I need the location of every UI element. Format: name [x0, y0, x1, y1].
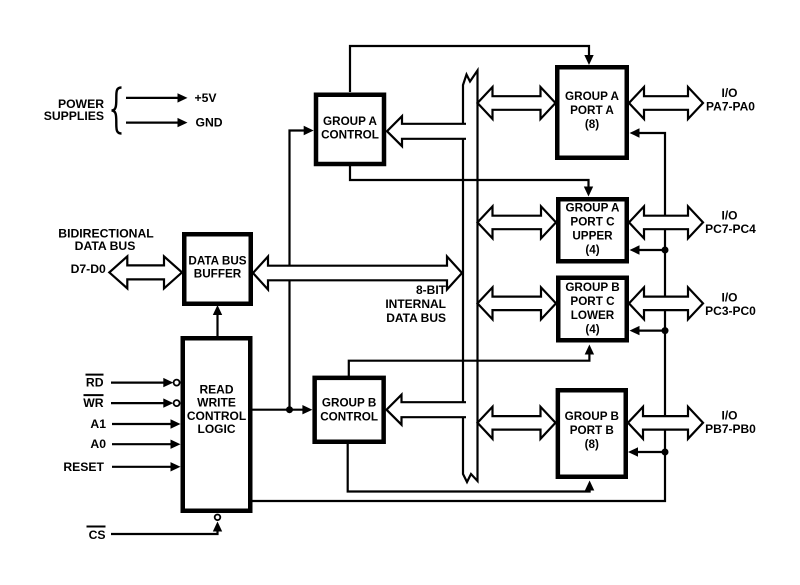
svg-text:(4): (4) — [585, 323, 599, 336]
svg-text:I/O: I/O — [721, 86, 737, 100]
svg-text:RESET: RESET — [63, 460, 104, 474]
I/O double arrow PC3-PC0 — [629, 287, 703, 319]
svg-text:A0: A0 — [90, 437, 106, 451]
svg-text:GND: GND — [196, 116, 223, 130]
svg-text:SUPPLIES: SUPPLIES — [44, 109, 104, 123]
svg-text:I/O: I/O — [721, 209, 737, 223]
svg-text:CONTROL: CONTROL — [187, 409, 246, 423]
wire group B control top to port C lower — [349, 348, 590, 377]
wire RWCL to data bus buffer — [216, 308, 218, 337]
svg-text:GROUP A: GROUP A — [565, 90, 619, 103]
input A1 — [112, 423, 177, 425]
GND arrow — [126, 121, 184, 123]
svg-text:(4): (4) — [585, 244, 599, 257]
svg-text:PORT B: PORT B — [570, 424, 614, 437]
svg-text:GROUP A: GROUP A — [566, 202, 620, 215]
internal data bus ribbon — [463, 71, 478, 483]
input RESET — [112, 466, 177, 468]
group A port A block — [557, 67, 627, 158]
wire branch to port B — [632, 451, 666, 453]
junction dot — [286, 406, 293, 413]
wire RWCL bottom loop to ports right side — [252, 133, 665, 501]
brace — [112, 88, 122, 134]
bidirectional data bus arrow D7-D0 to buffer — [109, 256, 182, 288]
data bus buffer block — [184, 234, 251, 304]
svg-text:8-BIT: 8-BIT — [416, 283, 447, 297]
hollow arrow into group B control — [387, 395, 467, 425]
svg-text:CONTROL: CONTROL — [321, 129, 379, 142]
I/O double arrow PB7-PB0 — [628, 407, 703, 439]
+5V arrow — [126, 97, 184, 99]
svg-text:BUFFER: BUFFER — [194, 268, 242, 281]
junction dot — [662, 327, 669, 334]
input CS with overline and inverter bubble — [111, 525, 218, 534]
svg-text:DATA BUS: DATA BUS — [75, 239, 136, 253]
svg-text:I/O: I/O — [721, 409, 737, 423]
group A port C upper block — [558, 199, 627, 261]
svg-text:PC3-PC0: PC3-PC0 — [705, 304, 756, 318]
svg-text:A1: A1 — [90, 417, 106, 431]
input RD with overline and inverter bubble — [111, 382, 165, 384]
I/O double arrow PA7-PA0 — [629, 87, 703, 119]
svg-text:GROUP B: GROUP B — [565, 281, 619, 294]
wire branch up to group A control — [290, 131, 311, 410]
wire RWCL to group B control — [252, 409, 309, 411]
wire branch to port C upper — [633, 249, 665, 251]
svg-text:I/O: I/O — [721, 291, 737, 305]
svg-text:WR: WR — [83, 396, 104, 410]
group B control block — [315, 378, 384, 442]
I/O double arrow PC7-PC4 — [629, 206, 703, 238]
svg-text:PORT A: PORT A — [570, 104, 614, 117]
svg-text:RD: RD — [86, 376, 104, 390]
group A control block — [316, 95, 384, 164]
svg-text:PA7-PA0: PA7-PA0 — [706, 100, 755, 114]
junction dot — [662, 449, 669, 456]
input A0 — [112, 443, 177, 445]
svg-text:DATA BUS: DATA BUS — [386, 311, 446, 325]
svg-text:PORT C: PORT C — [570, 216, 615, 229]
hollow arrow into group A control — [387, 116, 466, 146]
svg-text:PC7-PC4: PC7-PC4 — [705, 222, 756, 236]
svg-text:(8): (8) — [585, 438, 599, 451]
svg-text:INTERNAL: INTERNAL — [385, 297, 446, 311]
internal bus arrow buffer to ribbon — [253, 257, 462, 290]
svg-text:CONTROL: CONTROL — [320, 410, 378, 423]
wire group A control top to port A — [350, 46, 589, 92]
wire branch to port C lower — [633, 330, 665, 332]
group B port B block — [558, 390, 626, 477]
svg-text:GROUP B: GROUP B — [322, 397, 376, 410]
wire group A control bottom to port C upper — [350, 165, 589, 193]
double arrow ribbon to port C upper — [478, 206, 557, 238]
svg-text:(8): (8) — [585, 118, 599, 131]
svg-text:D7-D0: D7-D0 — [71, 262, 106, 276]
svg-text:GROUP B: GROUP B — [565, 410, 619, 423]
svg-text:LOGIC: LOGIC — [198, 422, 236, 436]
svg-text:READ: READ — [199, 383, 233, 397]
double arrow ribbon to port A — [478, 87, 556, 119]
svg-text:UPPER: UPPER — [572, 230, 613, 243]
svg-text:PORT C: PORT C — [570, 295, 615, 308]
junction dot — [662, 247, 669, 254]
double arrow ribbon to port B — [478, 407, 556, 439]
double arrow ribbon to port C lower — [478, 287, 557, 319]
svg-text:DATA BUS: DATA BUS — [188, 254, 246, 267]
svg-text:+5V: +5V — [195, 91, 218, 105]
read write control logic block — [183, 338, 251, 511]
svg-text:CS: CS — [89, 528, 106, 542]
wire group B control bottom to port B — [348, 443, 590, 492]
group B port C lower block — [558, 278, 627, 341]
svg-text:PB7-PB0: PB7-PB0 — [705, 422, 756, 436]
svg-text:GROUP A: GROUP A — [323, 115, 377, 128]
input WR with overline and inverter bubble — [111, 402, 165, 404]
svg-text:WRITE: WRITE — [197, 396, 236, 410]
svg-text:LOWER: LOWER — [571, 309, 615, 322]
